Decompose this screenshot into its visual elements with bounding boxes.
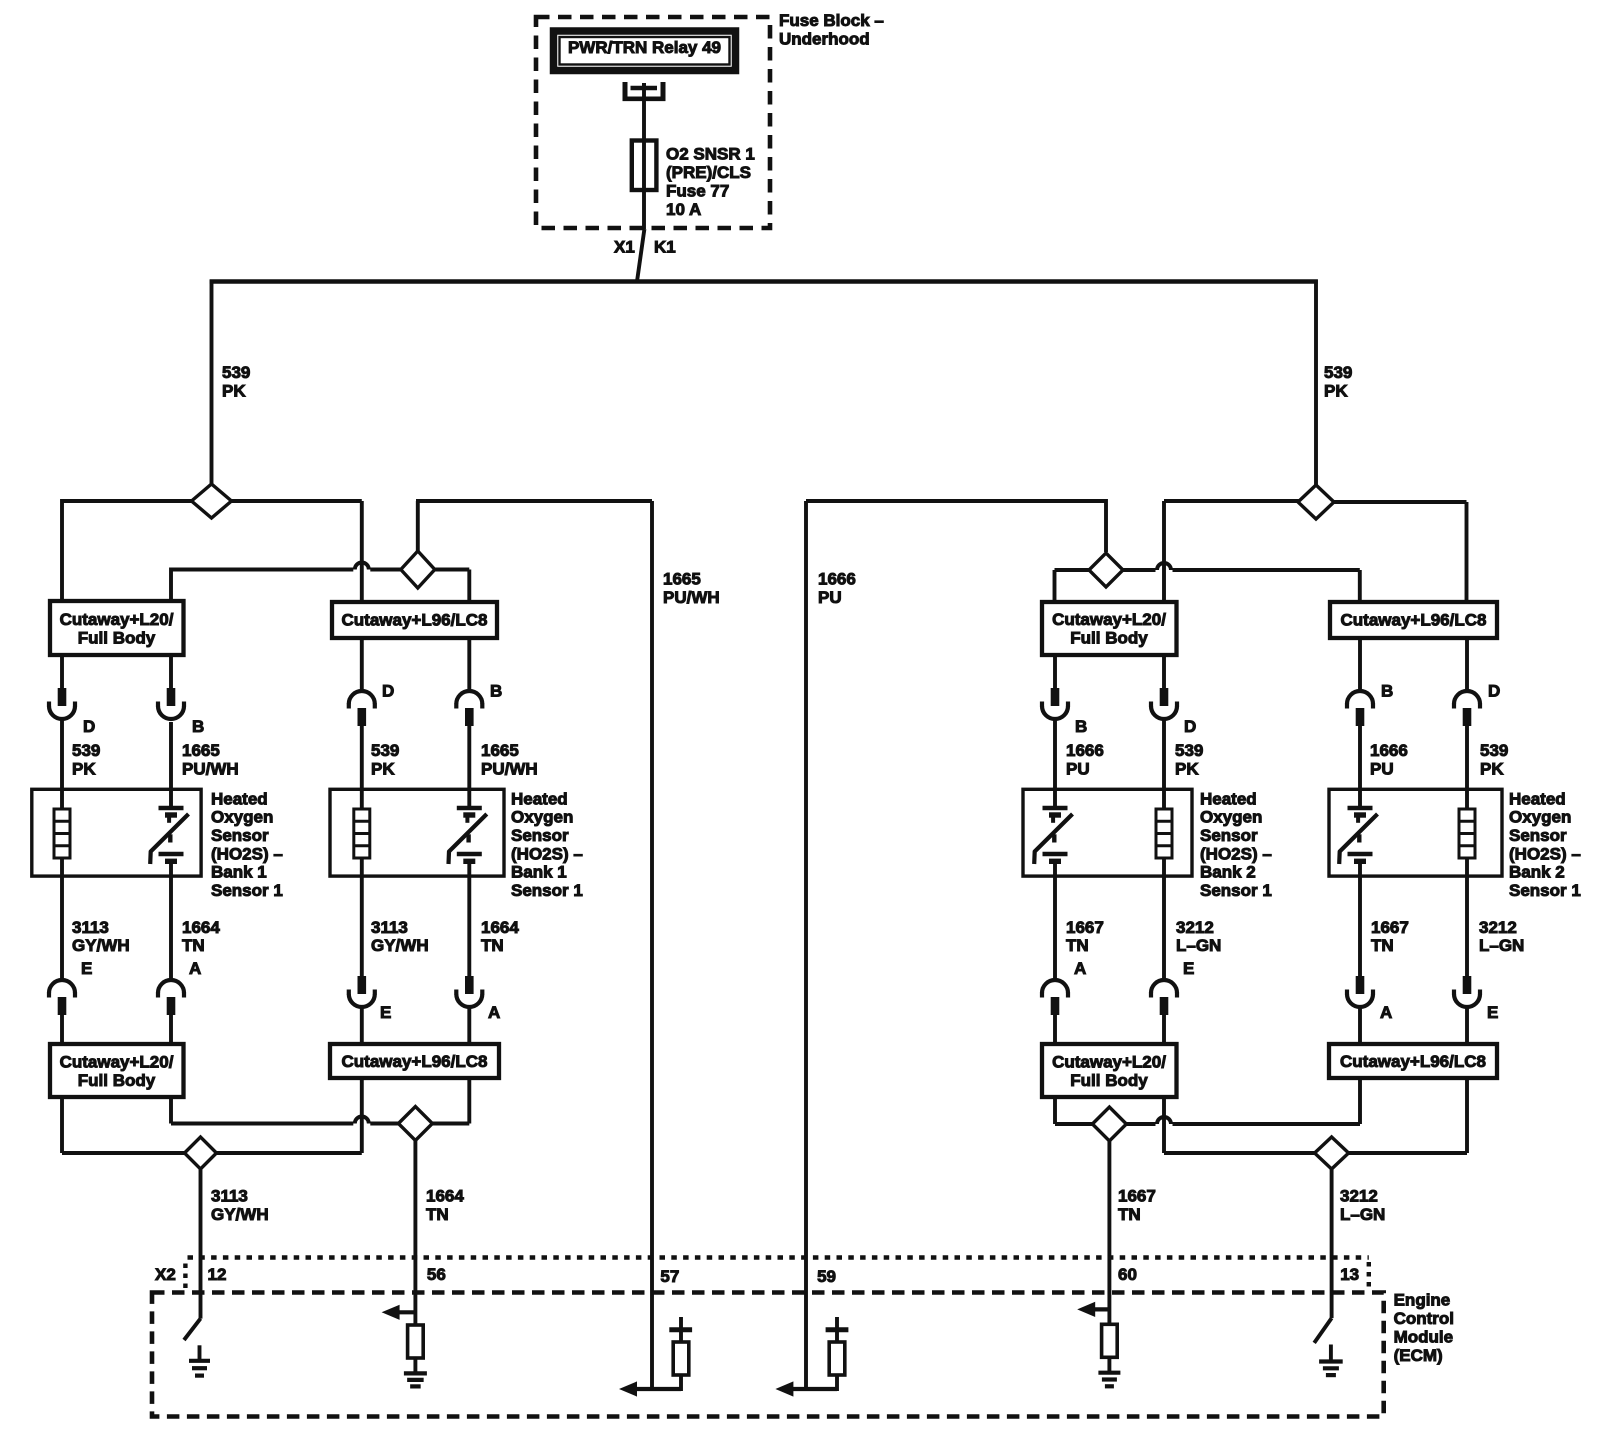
connector terminal B bank2 full body — [1042, 688, 1068, 719]
svg-text:B: B — [1381, 681, 1393, 700]
terminal letter B — [192, 717, 204, 736]
svg-text:Cutaway+L96/LC8: Cutaway+L96/LC8 — [342, 1052, 488, 1071]
wire into HO2S bank2 sensor1 (L96) — [1360, 726, 1467, 809]
svg-text:Engine: Engine — [1394, 1290, 1451, 1309]
svg-text:57: 57 — [660, 1267, 679, 1286]
svg-text:3212: 3212 — [1479, 918, 1517, 937]
label 1664 TN — [182, 918, 220, 955]
terminal letter E — [1487, 1003, 1498, 1022]
svg-text:13: 13 — [1340, 1265, 1359, 1284]
terminal letter E — [1183, 959, 1194, 978]
internal tap pin 59 — [826, 1317, 849, 1342]
ground pin 12 — [189, 1345, 210, 1375]
wire 1664 TN bottom left net — [171, 1078, 469, 1124]
svg-text:539: 539 — [222, 363, 250, 382]
svg-text:60: 60 — [1118, 1265, 1137, 1284]
pin 57 — [660, 1267, 679, 1286]
wire 1667 TN bottom right net — [1055, 1078, 1360, 1124]
svg-text:Cutaway+L96/LC8: Cutaway+L96/LC8 — [1340, 1052, 1486, 1071]
label 3113 GY/WH — [211, 1186, 269, 1224]
wire 539 PK left horizontal — [62, 499, 362, 601]
svg-text:Oxygen: Oxygen — [211, 808, 273, 827]
label 3113 GY/WH — [72, 918, 130, 955]
label 1665 PU/WH — [182, 741, 239, 779]
wire into HO2S bank1 sensor1 (L96) — [362, 726, 470, 809]
connector box Cutaway+L96/LC8 top right — [1330, 602, 1497, 638]
wire 3113 GY/WH to ECM pin 12 — [199, 1169, 203, 1319]
svg-text:A: A — [1074, 959, 1086, 978]
wire 3113 GY/WH from box1 — [60, 876, 64, 981]
wires out of HO2S box2 — [362, 789, 470, 876]
svg-text:Cutaway+L20/: Cutaway+L20/ — [60, 1052, 174, 1071]
terminal letter A — [488, 1003, 500, 1022]
svg-text:(HO2S) –: (HO2S) – — [1509, 844, 1581, 863]
label 1667 TN — [1118, 1186, 1156, 1224]
svg-text:12: 12 — [208, 1265, 227, 1284]
svg-text:Full Body: Full Body — [78, 628, 156, 647]
wire 539 PK second branch right — [1055, 570, 1360, 603]
wire into HO2S bank2 sensor1 (full body) — [1055, 719, 1164, 809]
terminal letter D — [83, 717, 95, 736]
terminal letter B — [490, 681, 502, 700]
svg-text:(HO2S) –: (HO2S) – — [211, 844, 283, 863]
sensor cell symbol — [449, 808, 487, 864]
signal arrow pin 60 — [1077, 1302, 1109, 1317]
pin 12 — [208, 1265, 227, 1284]
connector terminal A bank2 full body — [1042, 980, 1068, 1015]
svg-text:Bank 2: Bank 2 — [1509, 863, 1565, 882]
terminal letter D — [1184, 717, 1196, 736]
splice diamond 1667 — [1092, 1107, 1126, 1141]
connector label X2 — [155, 1265, 176, 1284]
wire 3212 L-GN bottom right net — [1164, 1078, 1467, 1153]
svg-text:PK: PK — [1480, 759, 1504, 778]
svg-text:Cutaway+L20/: Cutaway+L20/ — [1052, 1052, 1166, 1071]
terminal letter A — [1074, 959, 1086, 978]
connector terminal A bank2 L96 — [1347, 976, 1373, 1007]
svg-text:Bank 1: Bank 1 — [511, 863, 567, 882]
svg-text:PU/WH: PU/WH — [481, 759, 538, 778]
svg-text:Cutaway+L96/LC8: Cutaway+L96/LC8 — [1341, 611, 1487, 630]
connector label K1 — [654, 237, 676, 256]
svg-text:Full Body: Full Body — [1070, 628, 1148, 647]
sensor cell symbol — [150, 808, 188, 864]
svg-text:Cutaway+L96/LC8: Cutaway+L96/LC8 — [342, 611, 488, 630]
label 1667 TN — [1066, 918, 1104, 955]
terminal letter D — [382, 681, 394, 700]
wire relay to fuse — [642, 90, 646, 101]
svg-text:(HO2S) –: (HO2S) – — [1200, 844, 1272, 863]
splice diamond 1664 — [398, 1107, 432, 1141]
heater element — [54, 809, 70, 858]
wire into HO2S bank1 sensor1 (full body) — [62, 719, 171, 809]
svg-text:10 A: 10 A — [666, 200, 701, 219]
label 1665 PU/WH — [663, 569, 720, 607]
splice diamond 3212 — [1315, 1137, 1349, 1169]
svg-text:539: 539 — [72, 741, 100, 760]
resistor pin 57 — [673, 1342, 689, 1391]
wire 539 PK into connector D (bank2 L96) — [1465, 637, 1469, 692]
svg-text:L–GN: L–GN — [1340, 1205, 1385, 1224]
svg-text:Cutaway+L20/: Cutaway+L20/ — [1052, 610, 1166, 629]
connector box Cutaway+L96/LC8 top left — [332, 602, 497, 638]
svg-text:K1: K1 — [654, 237, 676, 256]
wire 1665 PU/WH into connector B (bank1 L96) — [467, 638, 471, 692]
HO2S bank 2 sensor 1 (full body) box — [1023, 789, 1192, 876]
connector box Cutaway+L20/Full Body top left — [50, 601, 184, 655]
svg-text:3113: 3113 — [72, 918, 109, 937]
ground pin 56 — [404, 1373, 427, 1386]
svg-text:3113: 3113 — [211, 1186, 248, 1205]
label 3212 L-GN — [1340, 1186, 1385, 1224]
ECM label Engine Control Module — [1394, 1290, 1454, 1365]
svg-text:PK: PK — [222, 381, 246, 400]
wire 1666 PU into connector B (bank2 full body) — [1053, 655, 1057, 689]
terminal letter E — [380, 1003, 391, 1022]
svg-text:3113: 3113 — [371, 918, 408, 937]
connector label X1 — [614, 237, 635, 256]
svg-text:(PRE)/CLS: (PRE)/CLS — [666, 163, 751, 182]
sensor cell symbol — [1339, 808, 1377, 864]
svg-text:3212: 3212 — [1340, 1186, 1378, 1205]
wire 1664 TN from box1 — [169, 876, 173, 981]
svg-text:Module: Module — [1394, 1327, 1454, 1346]
HO2S bank1 (L96) label — [511, 789, 583, 900]
HO2S bank 1 sensor 1 (L96) box — [330, 789, 504, 876]
wire 1666 PU feed — [806, 499, 1106, 1389]
ECM dashed box — [152, 1293, 1384, 1417]
svg-text:TN: TN — [1066, 936, 1089, 955]
svg-text:Sensor: Sensor — [1200, 826, 1258, 845]
wire 539 PK drop to Cutaway L96 left (with crossover) — [360, 501, 364, 602]
wire 539 PK right drop — [1314, 280, 1318, 486]
svg-text:Sensor 1: Sensor 1 — [511, 881, 583, 900]
ground pin 60 — [1098, 1373, 1120, 1387]
fuse block label — [779, 11, 884, 49]
label 1666 PU — [1066, 741, 1104, 779]
svg-text:L–GN: L–GN — [1176, 936, 1221, 955]
wire resistor to ground pin 56 — [413, 1358, 417, 1374]
connector terminal B bank1 L96 — [456, 691, 482, 726]
svg-text:1667: 1667 — [1066, 918, 1104, 937]
svg-text:Heated: Heated — [211, 789, 268, 808]
svg-text:PU: PU — [818, 588, 842, 607]
svg-text:1665: 1665 — [182, 741, 220, 760]
svg-text:Sensor 1: Sensor 1 — [1200, 881, 1272, 900]
internal tap pin 57 — [669, 1317, 692, 1342]
svg-text:GY/WH: GY/WH — [371, 936, 429, 955]
svg-text:PK: PK — [371, 759, 395, 778]
connector terminal D bank1 full body — [49, 688, 75, 719]
wire 539 PK into connector D (bank1 L96) — [360, 638, 364, 692]
svg-text:PU: PU — [1066, 759, 1090, 778]
wire 3113 GY/WH bottom left net — [62, 1078, 362, 1153]
svg-text:PK: PK — [1175, 759, 1199, 778]
connector terminal E bank1 full body — [49, 980, 75, 1015]
label 3212 L-GN — [1176, 918, 1221, 955]
wire 3212 L-GN from box4 — [1465, 876, 1469, 976]
svg-text:Underhood: Underhood — [779, 29, 870, 48]
svg-text:539: 539 — [1324, 363, 1352, 382]
wire 539 PK second branch left — [171, 568, 469, 603]
svg-text:1664: 1664 — [481, 918, 519, 937]
svg-text:Oxygen: Oxygen — [1200, 808, 1262, 827]
connector terminal D bank1 L96 — [349, 691, 375, 726]
wire 539 PK into connector D (bank2 full body) — [1162, 655, 1166, 689]
connector box Cutaway+L96/LC8 bottom right — [1329, 1044, 1497, 1078]
connector box Cutaway+L20/Full Body bottom left — [50, 1044, 184, 1097]
connector box Cutaway+L20/Full Body bottom right — [1042, 1044, 1177, 1097]
wire 3212 L-GN from box3 — [1162, 876, 1166, 981]
wire 539 PK bus — [210, 279, 1318, 284]
svg-text:Bank 2: Bank 2 — [1200, 863, 1256, 882]
svg-text:PK: PK — [1324, 381, 1348, 400]
svg-text:D: D — [382, 681, 394, 700]
label 3212 L-GN — [1479, 918, 1524, 955]
label 539 PK — [1480, 741, 1508, 779]
heater element — [1459, 809, 1475, 858]
fuse F77 label — [666, 144, 755, 219]
svg-text:PWR/TRN Relay 49: PWR/TRN Relay 49 — [568, 38, 721, 57]
terminal letter A — [189, 959, 201, 978]
splice diamond 3113 — [185, 1137, 217, 1169]
svg-text:PK: PK — [72, 759, 96, 778]
heater element — [354, 809, 370, 858]
svg-text:1667: 1667 — [1118, 1186, 1156, 1205]
svg-text:3212: 3212 — [1176, 918, 1214, 937]
connector id divider left — [183, 1264, 187, 1290]
svg-text:Oxygen: Oxygen — [511, 808, 573, 827]
svg-text:B: B — [192, 717, 204, 736]
svg-text:Heated: Heated — [511, 789, 568, 808]
label 1665 PU/WH — [481, 741, 538, 779]
label 1666 PU — [1370, 741, 1408, 779]
resistor pin 56 — [408, 1325, 424, 1358]
svg-text:TN: TN — [426, 1205, 449, 1224]
pin 59 — [817, 1267, 836, 1286]
connector terminal A bank1 L96 — [456, 976, 482, 1007]
label 539 PK left — [222, 363, 250, 401]
connector terminal E bank2 full body — [1151, 980, 1177, 1015]
fuse F77 O2 SNSR 1 10A — [632, 101, 657, 229]
sensor cell symbol — [1034, 808, 1072, 864]
wires row2 to bottom connector boxes — [62, 1007, 1467, 1044]
svg-text:A: A — [488, 1003, 500, 1022]
signal arrow pin 57 — [619, 1381, 681, 1396]
svg-text:Heated: Heated — [1200, 789, 1257, 808]
svg-text:Sensor: Sensor — [511, 826, 569, 845]
svg-text:Sensor 1: Sensor 1 — [211, 881, 283, 900]
wire 1664 TN to ECM pin 56 — [413, 1141, 417, 1326]
svg-text:TN: TN — [182, 936, 205, 955]
svg-text:X1: X1 — [614, 237, 635, 256]
wire 539 PK right horizontal — [1164, 501, 1299, 602]
svg-text:1666: 1666 — [818, 569, 856, 588]
svg-text:E: E — [81, 959, 92, 978]
wire 3113 GY/WH from box2 — [360, 876, 364, 976]
wire 1664 TN from box2 — [467, 876, 471, 976]
terminal letter B — [1075, 717, 1087, 736]
svg-text:GY/WH: GY/WH — [72, 936, 130, 955]
connector terminal D bank2 L96 — [1454, 691, 1480, 726]
svg-text:Fuse Block –: Fuse Block – — [779, 11, 884, 30]
wire 1665 PU/WH feed — [416, 501, 652, 1389]
svg-text:Fuse 77: Fuse 77 — [666, 181, 729, 200]
ECM connector pin row (dotted) — [188, 1255, 1369, 1260]
label 3113 GY/WH — [371, 918, 429, 955]
signal arrow pin 59 — [775, 1381, 837, 1396]
connector terminal A bank1 full body — [158, 980, 184, 1015]
label 1666 PU — [818, 569, 856, 607]
svg-text:1666: 1666 — [1370, 741, 1408, 760]
wire 1667 TN to ECM pin 60 — [1107, 1141, 1111, 1324]
svg-text:1667: 1667 — [1371, 918, 1409, 937]
label 1667 TN — [1371, 918, 1409, 955]
svg-text:A: A — [189, 959, 201, 978]
svg-text:B: B — [1075, 717, 1087, 736]
label 1664 TN — [481, 918, 519, 955]
terminal letter D — [1488, 681, 1500, 700]
wire crossover hop bottom left — [355, 1117, 369, 1124]
svg-text:TN: TN — [481, 936, 504, 955]
svg-text:A: A — [1380, 1003, 1392, 1022]
pin 56 — [427, 1265, 446, 1284]
switch to ground at pin 12 — [184, 1319, 201, 1340]
wire 1667 TN from box4 — [1358, 876, 1362, 976]
connector terminal B bank2 L96 — [1347, 691, 1373, 726]
terminal letter E — [81, 959, 92, 978]
svg-text:Control: Control — [1394, 1309, 1454, 1328]
splice diamond right second — [1089, 553, 1123, 587]
resistor pin 60 — [1102, 1324, 1118, 1357]
label 539 PK — [1175, 741, 1203, 779]
HO2S bank2 (full body) label — [1200, 789, 1272, 900]
switch to ground at pin 13 — [1314, 1318, 1331, 1343]
svg-text:59: 59 — [817, 1267, 836, 1286]
svg-text:539: 539 — [371, 741, 399, 760]
wire crossover hop bottom right — [1157, 1117, 1171, 1124]
wire 3212 L-GN to ECM pin 13 — [1330, 1169, 1334, 1318]
ground pin 13 — [1319, 1345, 1343, 1376]
svg-text:Sensor: Sensor — [211, 826, 269, 845]
svg-text:1666: 1666 — [1066, 741, 1104, 760]
connector id divider right — [1367, 1262, 1371, 1287]
signal arrow pin 56 — [382, 1305, 416, 1320]
svg-text:X2: X2 — [155, 1265, 176, 1284]
svg-text:Cutaway+L20/: Cutaway+L20/ — [60, 610, 174, 629]
wire 539 PK into connector D (bank1 full body) — [60, 655, 64, 689]
wire 1665 PU/WH into connector B (bank1 full body) — [169, 655, 173, 689]
svg-text:B: B — [490, 681, 502, 700]
wires out of HO2S box4 — [1360, 789, 1467, 876]
label 539 PK — [72, 741, 100, 779]
svg-text:539: 539 — [1480, 741, 1508, 760]
svg-text:PU: PU — [1370, 759, 1394, 778]
svg-text:D: D — [1184, 717, 1196, 736]
svg-text:1664: 1664 — [182, 918, 220, 937]
HO2S bank 1 sensor 1 (full body) box — [32, 789, 201, 876]
HO2S bank1 (full body) label — [211, 789, 283, 900]
HO2S bank2 (L96) label — [1509, 789, 1581, 900]
svg-text:TN: TN — [1371, 936, 1394, 955]
connector terminal D bank2 full body — [1151, 688, 1177, 719]
svg-text:1665: 1665 — [663, 569, 701, 588]
wire 539 PK left drop — [210, 280, 214, 485]
svg-text:Full Body: Full Body — [78, 1071, 156, 1090]
connector terminal B bank1 full body — [158, 688, 184, 719]
label 539 PK — [371, 741, 399, 779]
svg-text:Oxygen: Oxygen — [1509, 808, 1571, 827]
relay K49 contact symbol — [623, 82, 666, 101]
terminal letter B — [1381, 681, 1393, 700]
connector terminal E bank2 L96 — [1454, 976, 1480, 1007]
wire 539 PK to Cutaway L96 right — [1334, 502, 1467, 603]
svg-text:539: 539 — [1175, 741, 1203, 760]
wires out of HO2S box1 — [62, 789, 171, 876]
svg-text:D: D — [83, 717, 95, 736]
svg-text:56: 56 — [427, 1265, 446, 1284]
heater element — [1156, 809, 1172, 858]
label 539 PK right — [1324, 363, 1352, 401]
svg-text:E: E — [1487, 1003, 1498, 1022]
svg-text:(HO2S) –: (HO2S) – — [511, 844, 583, 863]
terminal letter A — [1380, 1003, 1392, 1022]
connector box Cutaway+L96/LC8 bottom left — [330, 1044, 499, 1078]
resistor pin 59 — [829, 1342, 845, 1391]
svg-text:E: E — [1183, 959, 1194, 978]
svg-text:PU/WH: PU/WH — [663, 588, 720, 607]
svg-text:E: E — [380, 1003, 391, 1022]
svg-text:TN: TN — [1118, 1205, 1141, 1224]
svg-text:GY/WH: GY/WH — [211, 1205, 269, 1224]
splice diamond right main — [1298, 485, 1334, 519]
connector box Cutaway+L20/Full Body top right — [1042, 602, 1177, 655]
fuse block underhood dashed box — [536, 17, 770, 228]
svg-text:1665: 1665 — [481, 741, 519, 760]
pin 60 — [1118, 1265, 1137, 1284]
HO2S bank 2 sensor 1 (L96) box — [1329, 789, 1502, 876]
pin 13 — [1340, 1265, 1359, 1284]
splice diamond left second — [401, 551, 435, 588]
wire crossover hop left — [355, 563, 369, 570]
wire crossover hop right — [1157, 563, 1171, 570]
svg-text:O2 SNSR 1: O2 SNSR 1 — [666, 144, 755, 163]
relay K49 PWR/TRN Relay 49 box — [554, 31, 736, 71]
svg-text:1664: 1664 — [426, 1186, 464, 1205]
svg-text:Bank 1: Bank 1 — [211, 863, 267, 882]
svg-text:L–GN: L–GN — [1479, 936, 1524, 955]
svg-text:Sensor 1: Sensor 1 — [1509, 881, 1581, 900]
connector terminal E bank1 L96 — [349, 976, 375, 1007]
wire 1667 TN from box3 — [1053, 876, 1057, 981]
svg-text:PU/WH: PU/WH — [182, 759, 239, 778]
svg-text:(ECM): (ECM) — [1394, 1346, 1443, 1365]
label 1664 TN — [426, 1186, 464, 1224]
svg-text:Heated: Heated — [1509, 789, 1566, 808]
wire resistor to ground pin 60 — [1107, 1357, 1111, 1373]
wires out of HO2S box3 — [1055, 789, 1164, 876]
splice diamond left main — [192, 484, 232, 518]
svg-text:D: D — [1488, 681, 1500, 700]
svg-text:Sensor: Sensor — [1509, 826, 1567, 845]
wire 1666 PU into connector B (bank2 L96) — [1358, 637, 1362, 692]
svg-text:Full Body: Full Body — [1070, 1071, 1148, 1090]
wire fuse to connector X1/K1 — [637, 229, 644, 282]
